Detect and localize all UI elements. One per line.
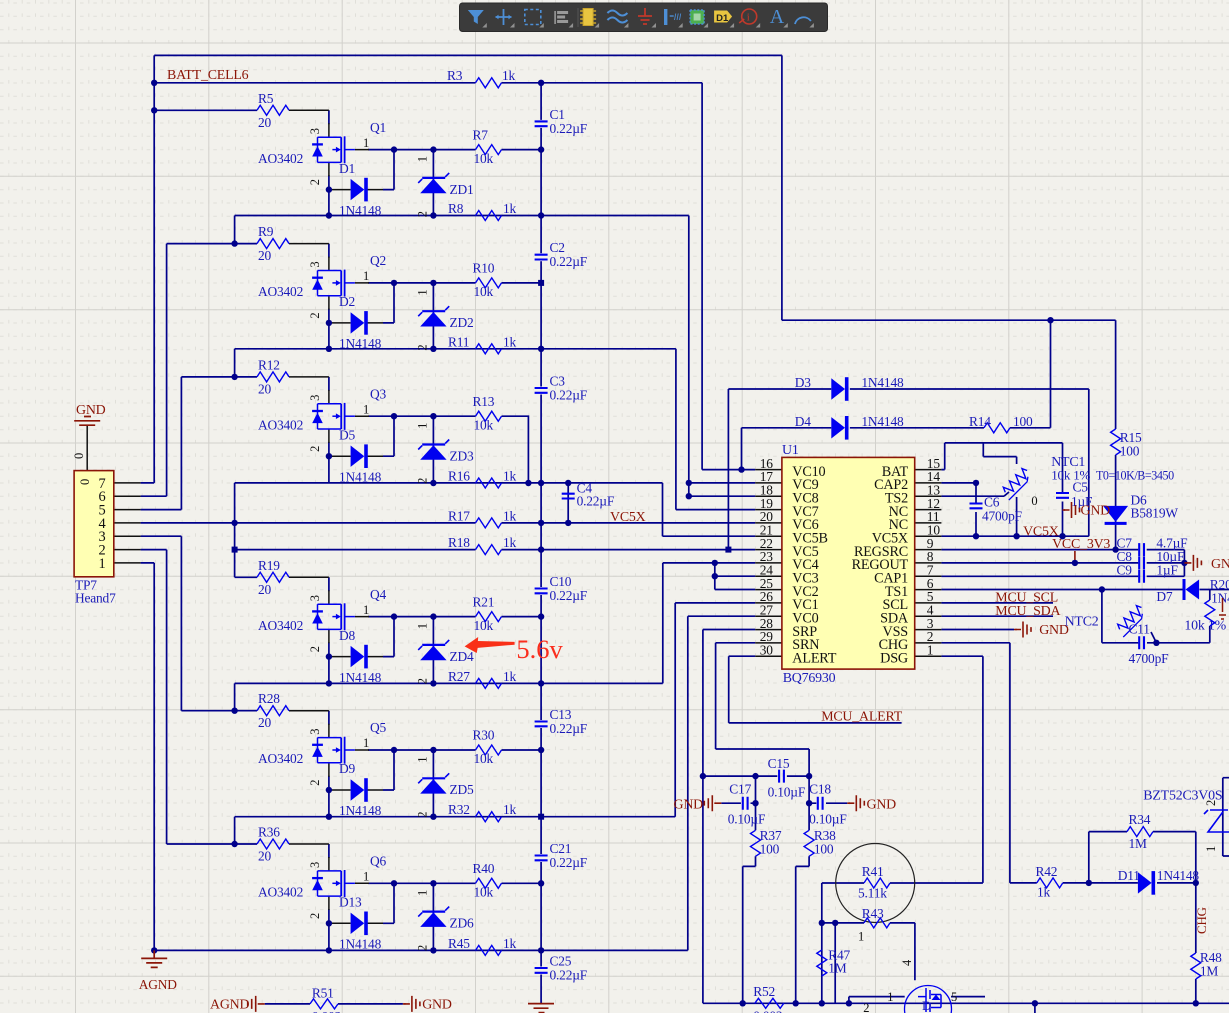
svg-text:C9: C9: [1117, 562, 1133, 577]
svg-text:D13: D13: [339, 895, 362, 910]
svg-text:3: 3: [308, 395, 322, 401]
svg-text:AO3402: AO3402: [258, 151, 303, 166]
svg-text:1: 1: [99, 556, 106, 572]
svg-text:D7: D7: [1156, 589, 1173, 604]
svg-text:2: 2: [308, 446, 322, 452]
svg-text:0.22µF: 0.22µF: [550, 254, 588, 269]
svg-text:0.003: 0.003: [753, 1009, 783, 1013]
svg-text:R13: R13: [473, 394, 495, 409]
svg-text:0: 0: [78, 479, 92, 485]
svg-text:R7: R7: [473, 127, 489, 142]
svg-text:R41: R41: [862, 864, 884, 879]
svg-text:R28: R28: [258, 691, 280, 706]
svg-text:1: 1: [363, 402, 369, 416]
svg-text:B5819W: B5819W: [1131, 506, 1179, 521]
svg-text:C25: C25: [550, 954, 572, 969]
svg-text:C10: C10: [550, 574, 572, 589]
svg-text:D1: D1: [339, 161, 355, 176]
svg-text:0.003: 0.003: [312, 1009, 342, 1013]
svg-text:1N4148: 1N4148: [1157, 868, 1200, 883]
svg-text:1k: 1k: [503, 802, 517, 817]
svg-text:DSG: DSG: [880, 650, 908, 666]
svg-text:Q6: Q6: [370, 854, 387, 869]
svg-text:D9: D9: [339, 761, 356, 776]
svg-text:R36: R36: [258, 825, 280, 840]
svg-text:1: 1: [363, 603, 369, 617]
svg-text:0.22µF: 0.22µF: [550, 855, 588, 870]
svg-text:2: 2: [416, 945, 430, 951]
svg-text:C1: C1: [550, 107, 565, 122]
svg-text:R32: R32: [448, 802, 470, 817]
svg-text:GND: GND: [422, 998, 452, 1013]
svg-text:4700pF: 4700pF: [982, 509, 1022, 524]
svg-text:0.22µF: 0.22µF: [550, 121, 588, 136]
svg-text:CHG: CHG: [1194, 907, 1209, 934]
svg-text:5: 5: [951, 990, 957, 1004]
svg-text:1N4148: 1N4148: [339, 670, 382, 685]
svg-text:VC5X: VC5X: [610, 510, 646, 525]
svg-text:C2: C2: [550, 240, 565, 255]
svg-text:VCC_3V3: VCC_3V3: [1052, 537, 1110, 552]
svg-text:2: 2: [416, 211, 430, 217]
svg-text:AGND: AGND: [210, 998, 250, 1013]
svg-text:1k: 1k: [503, 334, 517, 349]
svg-text:1: 1: [1204, 846, 1218, 852]
svg-text:2: 2: [308, 179, 322, 185]
svg-text:100: 100: [760, 842, 780, 857]
svg-text:R10: R10: [473, 261, 495, 276]
svg-text:10k: 10k: [474, 885, 494, 900]
svg-text:1: 1: [363, 736, 369, 750]
svg-text:R14: R14: [969, 414, 991, 429]
svg-text:0: 0: [1031, 494, 1037, 508]
svg-text:R8: R8: [448, 201, 464, 216]
svg-text:R51: R51: [312, 986, 334, 1001]
svg-text:T0=10K/B=3450: T0=10K/B=3450: [1096, 469, 1174, 483]
svg-text:10k 1%: 10k 1%: [1184, 619, 1226, 634]
svg-text:AO3402: AO3402: [258, 417, 303, 432]
svg-text:D3: D3: [795, 375, 812, 390]
svg-text:C17: C17: [729, 782, 751, 797]
svg-text:1M: 1M: [1129, 836, 1148, 851]
svg-text:2: 2: [1204, 800, 1218, 806]
svg-text:2: 2: [863, 1001, 869, 1013]
svg-text:BQ76930: BQ76930: [783, 671, 836, 686]
svg-text:1N4148: 1N4148: [339, 336, 382, 351]
svg-text:R34: R34: [1129, 812, 1151, 827]
svg-text:20: 20: [258, 582, 272, 597]
svg-text:C21: C21: [550, 841, 572, 856]
svg-text:3: 3: [308, 128, 322, 134]
svg-text:0.22µF: 0.22µF: [577, 494, 615, 509]
svg-text:1: 1: [363, 870, 369, 884]
svg-text:0.10µF: 0.10µF: [809, 812, 847, 827]
svg-text:2: 2: [308, 913, 322, 919]
svg-text:C11: C11: [1129, 622, 1150, 637]
svg-text:2: 2: [308, 313, 322, 319]
svg-text:C18: C18: [809, 782, 831, 797]
svg-text:MCU_ALERT: MCU_ALERT: [821, 710, 903, 725]
svg-text:AO3402: AO3402: [258, 618, 303, 633]
svg-text:1µF: 1µF: [1156, 562, 1177, 577]
svg-text:1N4148: 1N4148: [339, 937, 382, 952]
svg-text:D11: D11: [1118, 868, 1140, 883]
svg-text:C13: C13: [550, 707, 572, 722]
svg-text:1N4148: 1N4148: [861, 375, 904, 390]
svg-text:1: 1: [416, 623, 430, 629]
svg-text:0: 0: [72, 453, 86, 459]
svg-text:3: 3: [308, 862, 322, 868]
svg-text:20: 20: [258, 248, 272, 263]
svg-text:ZD5: ZD5: [450, 782, 475, 797]
svg-text:1: 1: [416, 156, 430, 162]
svg-text:AO3402: AO3402: [258, 885, 303, 900]
svg-text:1: 1: [416, 757, 430, 763]
svg-text:2: 2: [308, 646, 322, 652]
svg-text:1k: 1k: [502, 68, 516, 83]
svg-text:1k: 1k: [503, 508, 517, 523]
svg-text:D8: D8: [339, 628, 356, 643]
svg-text:Q4: Q4: [370, 587, 387, 602]
svg-text:20: 20: [258, 849, 272, 864]
svg-text:4: 4: [900, 959, 914, 966]
svg-text:0.10µF: 0.10µF: [728, 812, 766, 827]
svg-text:III: III: [674, 12, 682, 22]
svg-text:1k: 1k: [503, 535, 517, 550]
svg-text:BATT_CELL6: BATT_CELL6: [167, 68, 249, 83]
svg-text:Heand7: Heand7: [75, 591, 116, 606]
svg-text:1M: 1M: [828, 961, 847, 976]
svg-text:1: 1: [858, 930, 864, 944]
svg-text:3: 3: [308, 729, 322, 735]
svg-text:100: 100: [1013, 414, 1033, 429]
svg-text:20: 20: [258, 115, 272, 130]
svg-text:1: 1: [416, 290, 430, 296]
svg-text:D: D: [922, 998, 931, 1013]
svg-text:1N4148: 1N4148: [339, 803, 382, 818]
svg-text:1N4148: 1N4148: [861, 414, 904, 429]
svg-text:0.22µF: 0.22µF: [550, 588, 588, 603]
svg-text:10k: 10k: [474, 417, 494, 432]
svg-text:ZD1: ZD1: [450, 182, 474, 197]
svg-text:R45: R45: [448, 936, 470, 951]
svg-text:100: 100: [1120, 444, 1140, 459]
svg-text:1k: 1k: [1037, 885, 1051, 900]
svg-text:1k: 1k: [503, 469, 517, 484]
svg-text:2: 2: [416, 812, 430, 818]
svg-text:D4: D4: [795, 414, 812, 429]
svg-text:U1: U1: [782, 443, 799, 458]
svg-text:R16: R16: [448, 469, 470, 484]
svg-text:1k: 1k: [503, 936, 517, 951]
svg-text:R3: R3: [447, 68, 463, 83]
svg-text:2: 2: [416, 345, 430, 351]
svg-text:C15: C15: [768, 756, 790, 771]
svg-text:0.22µF: 0.22µF: [550, 388, 588, 403]
svg-text:3: 3: [308, 595, 322, 601]
svg-text:5.6v: 5.6v: [516, 634, 563, 664]
svg-text:Q5: Q5: [370, 720, 387, 735]
svg-text:100: 100: [814, 842, 834, 857]
svg-text:ALERT: ALERT: [792, 650, 836, 666]
svg-text:GND: GND: [674, 798, 704, 813]
svg-text:D2: D2: [339, 294, 355, 309]
svg-text:Q1: Q1: [370, 120, 386, 135]
svg-text:GND: GND: [1081, 504, 1111, 519]
svg-text:ZD3: ZD3: [450, 448, 475, 463]
svg-text:1: 1: [363, 136, 369, 150]
svg-text:R43: R43: [862, 906, 884, 921]
svg-text:R19: R19: [258, 558, 280, 573]
svg-text:1N4148: 1N4148: [339, 469, 382, 484]
svg-text:R5: R5: [258, 91, 274, 106]
svg-text:1: 1: [416, 423, 430, 429]
svg-text:10k: 10k: [474, 284, 494, 299]
svg-text:1N4: 1N4: [1211, 591, 1229, 606]
svg-text:A: A: [770, 6, 785, 28]
svg-text:1N4148: 1N4148: [339, 203, 382, 218]
svg-text:20: 20: [258, 381, 272, 396]
svg-text:AO3402: AO3402: [258, 284, 303, 299]
svg-text:R11: R11: [448, 334, 469, 349]
svg-text:D1: D1: [716, 13, 729, 24]
svg-text:1M: 1M: [1200, 964, 1219, 979]
svg-text:5.11k: 5.11k: [858, 886, 887, 901]
svg-text:1: 1: [363, 269, 369, 283]
svg-text:Q3: Q3: [370, 386, 387, 401]
svg-text:10k: 10k: [474, 151, 494, 166]
svg-text:10k: 10k: [474, 751, 494, 766]
svg-text:ZD2: ZD2: [450, 315, 474, 330]
svg-text:0.22µF: 0.22µF: [550, 968, 588, 983]
svg-text:GND: GND: [1211, 557, 1229, 572]
svg-text:C5: C5: [1073, 480, 1089, 495]
svg-text:1k: 1k: [503, 201, 517, 216]
svg-text:2: 2: [416, 678, 430, 684]
svg-text:GND: GND: [867, 798, 897, 813]
svg-text:R42: R42: [1036, 864, 1058, 879]
svg-text:i: i: [747, 12, 750, 24]
svg-text:R27: R27: [448, 669, 470, 684]
svg-text:R52: R52: [753, 984, 775, 999]
svg-text:R9: R9: [258, 224, 274, 239]
svg-text:R18: R18: [448, 535, 470, 550]
svg-text:3: 3: [308, 262, 322, 268]
svg-text:NTC2: NTC2: [1065, 615, 1099, 630]
svg-text:D5: D5: [339, 427, 356, 442]
svg-text:2: 2: [308, 780, 322, 786]
svg-text:R12: R12: [258, 357, 280, 372]
svg-text:0.10µF: 0.10µF: [768, 785, 806, 800]
svg-text:30: 30: [760, 642, 774, 657]
svg-text:ZD6: ZD6: [450, 916, 475, 931]
svg-text:Q2: Q2: [370, 253, 386, 268]
svg-text:2: 2: [416, 478, 430, 484]
svg-text:20: 20: [258, 715, 272, 730]
svg-text:1: 1: [887, 990, 893, 1004]
svg-text:R17: R17: [448, 508, 470, 523]
svg-text:1: 1: [416, 890, 430, 896]
svg-text:1: 1: [927, 642, 934, 657]
svg-text:R40: R40: [473, 861, 495, 876]
svg-text:0.22µF: 0.22µF: [550, 721, 588, 736]
svg-text:ZD4: ZD4: [450, 649, 475, 664]
svg-text:C3: C3: [550, 374, 566, 389]
svg-text:1k: 1k: [503, 669, 517, 684]
svg-text:AO3402: AO3402: [258, 751, 303, 766]
svg-text:MCU_SDA: MCU_SDA: [995, 604, 1060, 619]
svg-text:4700pF: 4700pF: [1129, 651, 1169, 666]
svg-text:C6: C6: [984, 495, 1000, 510]
svg-text:10k: 10k: [474, 618, 494, 633]
svg-text:AGND: AGND: [139, 977, 178, 992]
svg-text:R30: R30: [473, 728, 495, 743]
svg-text:R21: R21: [473, 594, 495, 609]
